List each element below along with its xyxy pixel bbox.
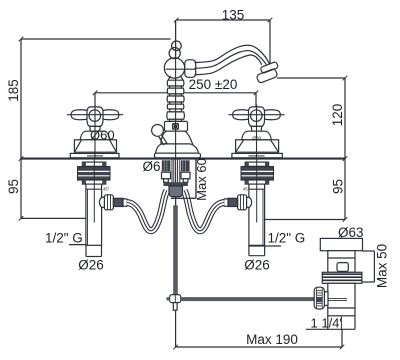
right skirt slant left — [236, 140, 244, 152]
svg-text:Ø63: Ø63 — [338, 225, 364, 240]
spout collar — [185, 60, 196, 78]
deck line — [21, 158, 345, 160]
center block — [169, 186, 183, 197]
drain knob collar — [324, 292, 328, 306]
svg-text:Ø6: Ø6 — [143, 159, 161, 174]
left valve sleeve — [113, 198, 123, 206]
spout aerator band — [260, 61, 278, 73]
spout aerator tip — [256, 68, 278, 83]
right valve collar 1 — [245, 162, 268, 166]
drain tail lower — [327, 316, 329, 330]
right handle skirt box — [236, 140, 279, 152]
drain overflow window — [337, 263, 348, 272]
right handle hub — [249, 107, 265, 127]
svg-text:1 1/4': 1 1/4' — [311, 315, 342, 330]
spout neck ring — [169, 48, 180, 59]
svg-text:1/2" G: 1/2" G — [268, 230, 306, 245]
right valve hose cap — [224, 199, 228, 206]
Ø26 left bracket — [85, 245, 87, 256]
column ring 4 — [167, 104, 183, 109]
left valve center line — [93, 159, 95, 223]
dim Max60 line — [195, 159, 197, 198]
drain upper body — [328, 251, 355, 273]
rod clevis — [170, 295, 181, 303]
drain knob — [314, 287, 324, 309]
left handle hub circle — [89, 110, 101, 122]
right valve center line — [256, 159, 258, 223]
column ring 5 — [167, 112, 184, 119]
left valve washer stack — [78, 167, 110, 180]
pop-up rod — [173, 205, 178, 296]
column cap — [165, 121, 188, 131]
column base plate — [154, 153, 200, 158]
column ring 3 — [167, 96, 184, 102]
svg-text:135: 135 — [222, 8, 245, 23]
right handle center lines — [228, 114, 284, 116]
cap ornament — [173, 124, 179, 130]
spout big ball joint — [164, 58, 184, 78]
left handle bonnet — [80, 131, 110, 140]
1/2 G left leader — [69, 244, 86, 246]
1 1/4 leader line — [306, 328, 355, 330]
left valve hose cap — [123, 199, 127, 206]
right handle right wing — [263, 110, 281, 120]
pop-up rod stem — [175, 197, 177, 206]
left hose — [127, 191, 167, 231]
right handle base plate — [232, 153, 282, 157]
svg-text:1/2" G: 1/2" G — [45, 230, 83, 245]
spout column center line — [175, 20, 177, 205]
svg-text:Max 190: Max 190 — [246, 332, 298, 347]
right handle bonnet — [242, 131, 272, 140]
right valve washer stack — [241, 167, 273, 180]
clevis left stub — [166, 297, 169, 300]
dim Max190 line — [175, 310, 177, 347]
left handle hub — [87, 107, 103, 127]
column groove 4 — [170, 109, 182, 112]
column ring 1 — [167, 80, 183, 86]
left valve hex nut — [99, 197, 106, 207]
svg-text:185: 185 — [6, 79, 21, 102]
left skirt slant right — [110, 140, 117, 152]
left handle skirt box — [74, 140, 116, 152]
spout pipe top outline — [195, 45, 270, 63]
drain tailpiece — [328, 308, 355, 316]
column groove 1 — [170, 86, 182, 88]
Max50 bracket — [363, 250, 375, 252]
drain flange — [320, 238, 362, 250]
left handle right wing — [101, 110, 119, 120]
Max60 bracket redraw — [195, 159, 197, 198]
left valve collar 2 — [82, 180, 105, 184]
svg-text:Ø26: Ø26 — [78, 257, 104, 272]
horizontal rod — [181, 297, 314, 301]
spout pipe bottom outline — [195, 55, 262, 75]
center stud left — [162, 160, 171, 171]
left handle center lines — [67, 114, 123, 116]
svg-text:Ø26: Ø26 — [244, 257, 270, 272]
center nut right — [181, 172, 190, 179]
drain lock nut — [322, 272, 362, 283]
left valve tube — [86, 184, 102, 245]
dim 135 line — [176, 19, 270, 21]
clevis lower tube — [173, 303, 177, 311]
dim 120 line — [344, 78, 346, 159]
right valve collar 2 — [245, 180, 268, 184]
left valve collar 1 — [82, 162, 105, 166]
column skirt — [156, 144, 199, 153]
column neck under ball — [168, 76, 183, 80]
column groove 3 — [170, 102, 182, 104]
column bell dome — [161, 131, 193, 145]
svg-text:95: 95 — [6, 179, 21, 194]
right handle left wing — [233, 110, 251, 120]
drain center line — [340, 236, 342, 330]
right hose — [184, 191, 224, 231]
right handle hub circle — [250, 110, 262, 122]
drain lever knob — [152, 124, 164, 136]
right valve hex nut — [244, 197, 251, 207]
svg-text:45°: 45° — [103, 187, 110, 192]
left handle left wing — [71, 110, 89, 120]
right valve sleeve — [228, 198, 238, 206]
spout axis line — [166, 68, 196, 70]
svg-text:Ø60: Ø60 — [90, 127, 115, 142]
left handle neck — [90, 126, 101, 131]
svg-text:250 ±20: 250 ±20 — [189, 77, 238, 92]
center bar — [164, 182, 188, 186]
svg-text:120: 120 — [330, 104, 345, 127]
drain tube — [328, 283, 355, 308]
dim 185 line — [20, 39, 22, 159]
drain lever arm — [159, 135, 167, 144]
dim 120 extension — [277, 77, 345, 79]
dim 95 left line — [20, 159, 22, 219]
center stud right — [181, 160, 190, 171]
1/2 G right leader — [249, 245, 281, 247]
svg-text:Max 50: Max 50 — [375, 244, 390, 288]
column groove 2 — [170, 94, 182, 96]
spout pipe middle line — [195, 51, 267, 69]
right skirt slant right — [271, 140, 279, 152]
right valve tube — [249, 184, 265, 245]
dim 250 line — [95, 92, 256, 94]
right handle neck — [251, 126, 262, 131]
left handle base plate — [70, 153, 119, 157]
lever arm redraw — [159, 135, 167, 144]
column center line redraw — [175, 20, 177, 159]
left skirt slant left — [74, 140, 81, 152]
column ring 2 — [167, 88, 183, 94]
Ø26 right bracket — [248, 245, 250, 255]
dim 185 extension — [21, 38, 171, 40]
center nut left — [162, 172, 171, 179]
svg-text:45°: 45° — [243, 187, 250, 192]
spout top ball — [172, 41, 182, 51]
rod through tube — [328, 297, 347, 299]
dim 95 right line — [344, 159, 346, 220]
center shank lines — [171, 160, 173, 183]
svg-text:95: 95 — [331, 179, 346, 194]
column groove 5 — [170, 119, 182, 121]
